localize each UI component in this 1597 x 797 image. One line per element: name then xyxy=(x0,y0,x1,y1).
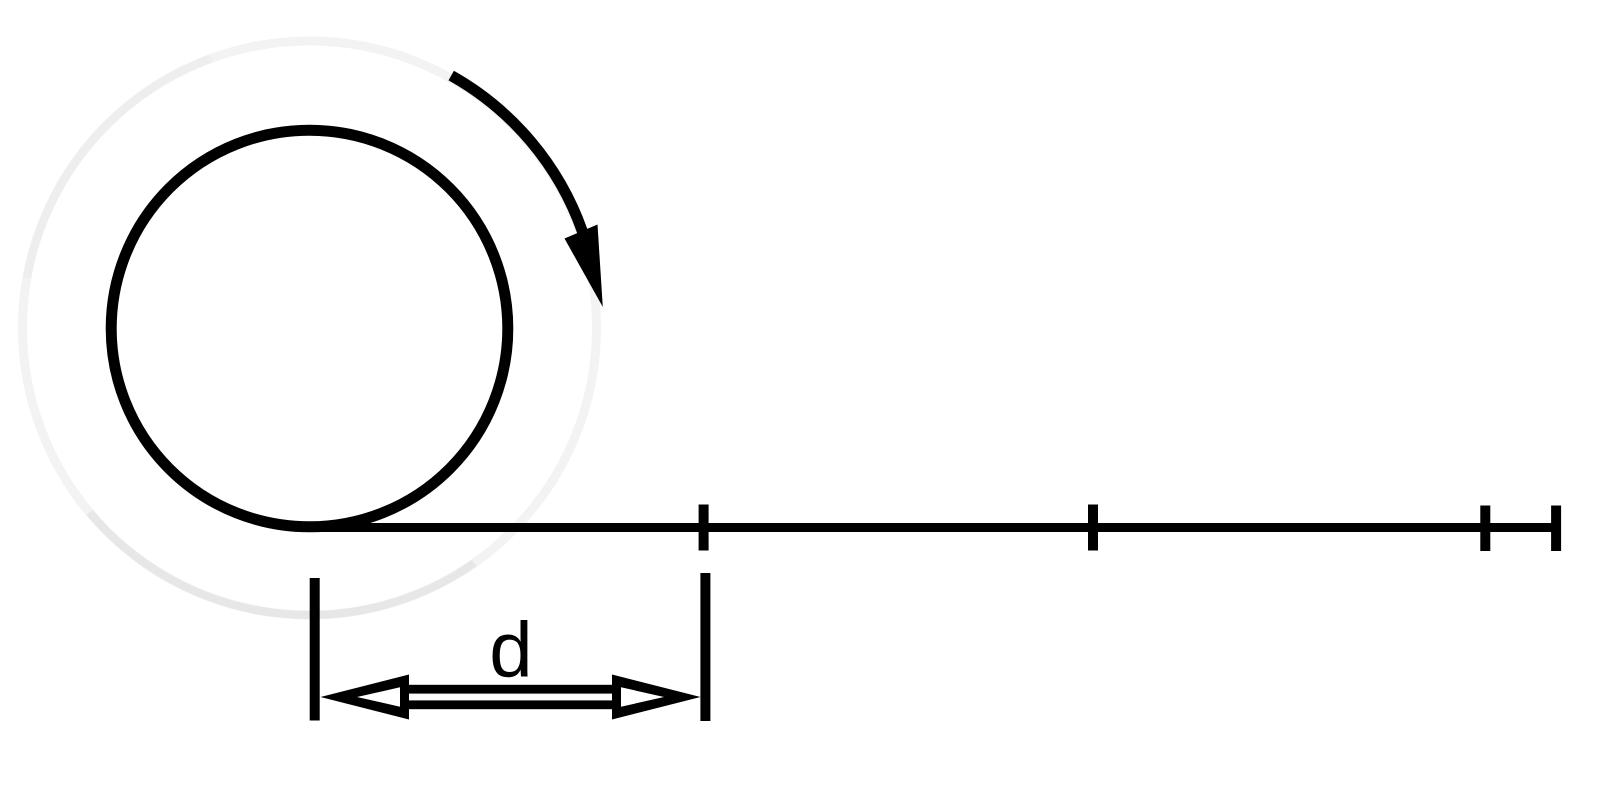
tick mark 1 xyxy=(699,505,709,551)
dimension extension line right xyxy=(700,573,710,721)
svg-text:d: d xyxy=(489,606,532,694)
dimension double arrow black body xyxy=(321,675,701,720)
ghost ring darker bottom arc xyxy=(90,513,475,616)
rotation arrow head xyxy=(565,225,603,308)
ground line xyxy=(303,523,1561,532)
ghost ring darker left arc xyxy=(27,58,211,278)
dimension double arrow white insets xyxy=(357,687,664,706)
faint ghost ring (rotation path) xyxy=(23,41,597,615)
tick mark 4 (end cap) xyxy=(1551,506,1561,552)
tick mark 3 xyxy=(1480,506,1490,552)
dimension extension line left xyxy=(310,578,320,721)
wheel circle xyxy=(111,130,508,527)
tick mark 2 xyxy=(1088,505,1098,551)
rotation arrow arc xyxy=(451,76,582,232)
